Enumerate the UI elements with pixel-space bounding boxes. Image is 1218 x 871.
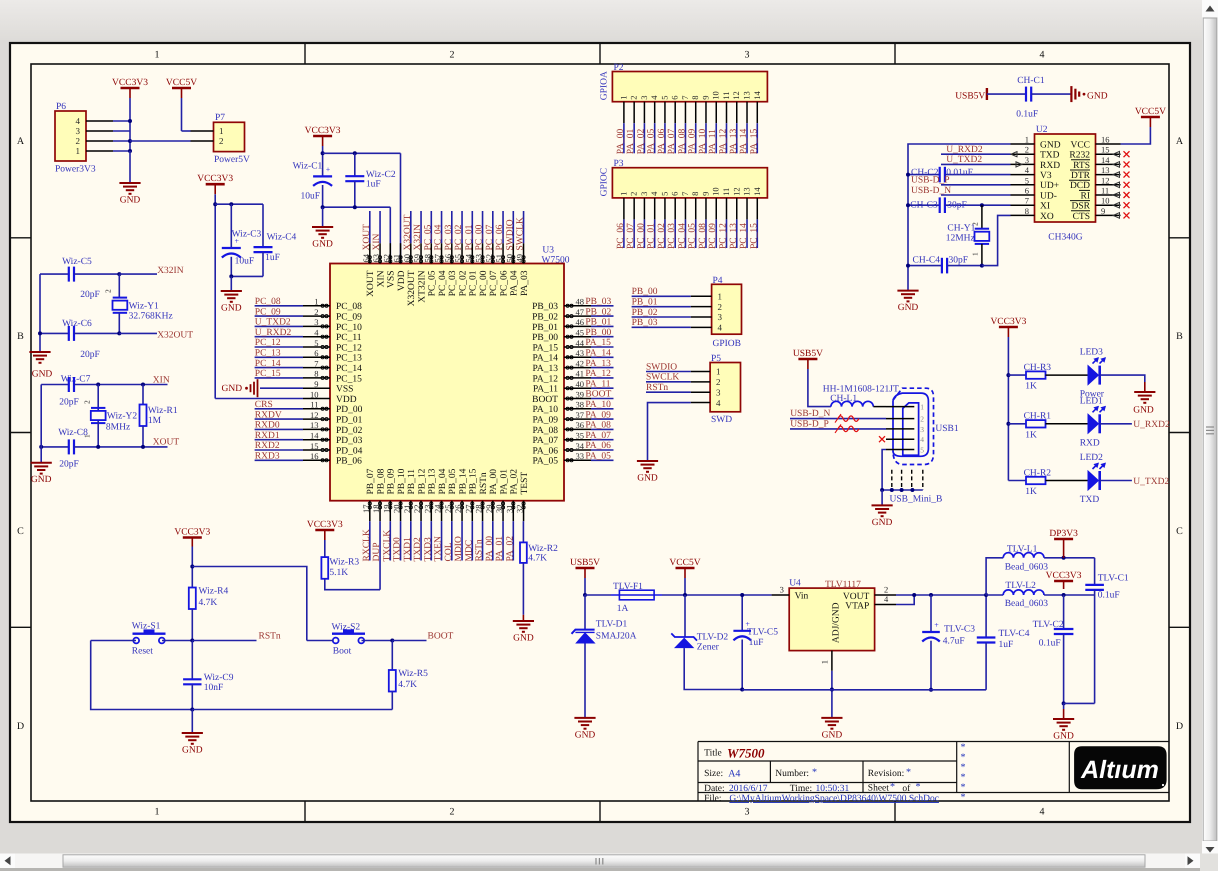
svg-text:GND: GND [1087, 91, 1108, 101]
svg-text:PB_03: PB_03 [632, 318, 658, 328]
svg-text:2: 2 [629, 192, 639, 196]
svg-text:15: 15 [1101, 145, 1110, 155]
svg-text:56: 56 [443, 254, 453, 263]
pin 58 of U3 (PC_05) [430, 243, 432, 263]
svg-text:TXD0: TXD0 [393, 537, 403, 562]
no-connect pin 15 [1113, 151, 1120, 157]
svg-text:PC_01: PC_01 [647, 223, 657, 249]
pin 4 of U3 (PC_11) [303, 336, 330, 338]
pin 8 of P2 (PA_09) [695, 102, 697, 124]
svg-text:21: 21 [402, 505, 412, 514]
pin 4 of P2 (PA_05) [654, 102, 656, 124]
svg-text:30pF: 30pF [949, 256, 969, 266]
svg-text:1: 1 [971, 252, 980, 256]
junction [390, 639, 394, 643]
pin 1 of P6 [86, 150, 113, 152]
wire [214, 194, 216, 398]
net label PC_04 [684, 219, 686, 248]
svg-text:5: 5 [314, 338, 318, 348]
svg-text:4: 4 [76, 116, 81, 126]
svg-text:1uF: 1uF [999, 640, 1014, 650]
svg-text:RSTn: RSTn [479, 472, 489, 494]
svg-text:GND: GND [637, 474, 658, 484]
net label PA_01 [502, 521, 504, 560]
svg-text:PA_15: PA_15 [585, 338, 611, 348]
svg-text:30pF: 30pF [947, 201, 967, 211]
ground rail at U3 pin 9 [260, 387, 303, 389]
pin 24 of U3 (PB_04) [441, 501, 443, 522]
resistor Wiz-R3 5.1K [324, 540, 326, 557]
svg-text:D: D [17, 721, 24, 732]
svg-text:PB_00: PB_00 [632, 287, 658, 297]
wire [808, 369, 831, 407]
wire [585, 594, 611, 596]
pin 1 of U3 (PC_08) [303, 305, 330, 307]
svg-text:20: 20 [392, 505, 402, 514]
pin 3 of U3 (PC_10) [303, 325, 330, 327]
pin 11 of U3 (PD_00) [303, 408, 330, 410]
svg-text:2: 2 [450, 807, 455, 818]
svg-text:Power3V3: Power3V3 [55, 165, 96, 175]
svg-text:3: 3 [76, 126, 81, 136]
svg-text:64: 64 [361, 253, 371, 262]
resistor CH-R3 1K [1008, 374, 1026, 376]
pin 7 of P3 (PC_04) [684, 198, 686, 220]
svg-text:1uF: 1uF [749, 638, 764, 648]
inductor TLV-L1 Bead_0603 [986, 558, 1003, 595]
net label PA_15 [591, 346, 614, 348]
svg-text:GND: GND [1053, 732, 1074, 742]
svg-text:PA_07: PA_07 [532, 436, 558, 446]
svg-text:VTAP: VTAP [845, 602, 869, 612]
svg-text:3: 3 [1025, 155, 1029, 165]
svg-text:HH-1M1608-121JT: HH-1M1608-121JT [823, 385, 899, 395]
svg-text:U4: U4 [789, 578, 801, 588]
wire C4/Y1 to pin8 XO [982, 215, 1011, 265]
wire [113, 140, 130, 142]
pin 5 of P2 (PA_06) [664, 102, 666, 124]
net label SWDIO [512, 211, 514, 243]
svg-text:PB_11: PB_11 [407, 469, 417, 495]
net label PC_03 [674, 219, 676, 248]
net label COL [451, 521, 453, 560]
svg-text:2: 2 [716, 377, 721, 387]
svg-text:36: 36 [576, 420, 585, 430]
pin 1 of P2 (PA_00) [623, 102, 625, 124]
net label PA_01 [633, 123, 635, 153]
wire pin16 to VCC5V [1121, 127, 1151, 144]
svg-text:RXD: RXD [1080, 438, 1100, 448]
svg-text:13: 13 [310, 420, 319, 430]
svg-text:5: 5 [920, 446, 924, 455]
svg-text:35: 35 [576, 431, 585, 441]
net label PA_09 [695, 123, 697, 153]
svg-text:PB_07: PB_07 [366, 468, 376, 494]
svg-text:BOOT: BOOT [532, 395, 558, 405]
junction [906, 203, 910, 207]
svg-text:PC_09: PC_09 [336, 313, 362, 323]
svg-text:20pF: 20pF [80, 350, 100, 360]
pin 1 of P5 [691, 371, 710, 373]
bottom rail [192, 709, 392, 711]
svg-text:Wiz-C8: Wiz-C8 [58, 428, 88, 438]
svg-text:W7500: W7500 [727, 746, 765, 761]
svg-text:12: 12 [731, 187, 741, 196]
net label DUP [379, 521, 381, 590]
svg-text:TLV-D2: TLV-D2 [697, 633, 729, 643]
svg-text:9: 9 [700, 95, 710, 99]
junction [213, 202, 217, 206]
net label PC_05 [430, 211, 432, 243]
right scrollbar [1202, 0, 1218, 858]
svg-text:PA_01: PA_01 [495, 536, 505, 562]
svg-text:C: C [1176, 526, 1183, 537]
svg-text:Wiz-C7: Wiz-C7 [61, 375, 91, 385]
resistor Wiz-R5 4.7K [391, 641, 393, 671]
shield tabs [891, 470, 893, 490]
svg-text:USB_Mini_B: USB_Mini_B [890, 495, 943, 505]
svg-text:BOOT: BOOT [428, 632, 454, 642]
svg-text:PA_00: PA_00 [616, 129, 626, 155]
pin 11 of U2 (RI) [1096, 194, 1121, 196]
pin 9 of U3 (VSS) [303, 387, 330, 389]
svg-text:RXD2: RXD2 [255, 441, 280, 451]
svg-text:PC_14: PC_14 [739, 223, 749, 249]
no-connect pin 11 [1113, 192, 1120, 198]
svg-text:1: 1 [718, 292, 723, 302]
svg-text:PA_02: PA_02 [636, 129, 646, 155]
svg-text:4.7K: 4.7K [199, 598, 218, 608]
svg-text:CH-R3: CH-R3 [1024, 363, 1052, 373]
no-connect pin 12 [1113, 182, 1120, 188]
net label PA_05 [591, 459, 614, 461]
svg-text:2: 2 [314, 307, 318, 317]
pin 2 of U2 (TXD) [1011, 153, 1035, 155]
svg-text:4.7K: 4.7K [398, 680, 417, 690]
pin 4 of P4 (PB_03) [691, 326, 712, 328]
pin 30 of U3 (PA_01) [502, 501, 504, 522]
svg-text:XIN: XIN [372, 233, 382, 250]
svg-text:VCC3V3: VCC3V3 [1046, 571, 1082, 581]
pin 54 of U3 (PC_01) [471, 243, 473, 263]
capacitor Wiz-C9 10nF [191, 641, 193, 680]
svg-text:5: 5 [659, 95, 669, 99]
junction [190, 708, 194, 712]
svg-text:PC_08: PC_08 [336, 302, 362, 312]
svg-text:SWCLK: SWCLK [646, 373, 679, 383]
svg-text:RXD3: RXD3 [255, 452, 280, 462]
wire [113, 120, 130, 122]
svg-text:PA_14: PA_14 [532, 354, 558, 364]
svg-text:10uF: 10uF [235, 257, 255, 267]
junction [38, 331, 42, 335]
net label MDIO [461, 521, 463, 560]
ground symbol (8M) [31, 463, 52, 474]
svg-text:4: 4 [718, 323, 723, 333]
svg-text:Reset: Reset [132, 646, 153, 656]
svg-text:PC_00: PC_00 [475, 224, 485, 250]
svg-text:Wiz-R2: Wiz-R2 [528, 544, 558, 554]
svg-text:9: 9 [1101, 206, 1105, 216]
svg-text:GPIOC: GPIOC [600, 168, 610, 197]
svg-text:1K: 1K [1025, 382, 1037, 392]
junction [906, 173, 910, 177]
svg-text:11: 11 [721, 92, 731, 100]
net label PA_14 [591, 356, 614, 358]
wire [113, 130, 130, 132]
svg-text:11: 11 [721, 188, 731, 196]
net label PA_06 [664, 123, 666, 153]
net label PC_00 [482, 211, 484, 243]
svg-text:PA_05: PA_05 [532, 457, 558, 467]
svg-text:CTS: CTS [1073, 212, 1090, 222]
svg-text:2: 2 [884, 585, 888, 595]
svg-text:PA_14: PA_14 [585, 349, 611, 359]
net label RSTn [482, 521, 484, 560]
svg-text:1: 1 [155, 50, 160, 61]
svg-text:A4: A4 [728, 768, 740, 779]
net label PC_01 [471, 211, 473, 243]
svg-text:4: 4 [1040, 807, 1045, 818]
svg-text:5: 5 [659, 192, 669, 196]
pin 42 of U3 (PA_13) [564, 367, 591, 369]
svg-text:ADJ/GND: ADJ/GND [832, 602, 842, 643]
svg-text:A: A [17, 136, 25, 147]
svg-text:GND: GND [32, 370, 53, 380]
net label PA_07 [674, 123, 676, 153]
svg-text:0.1uF: 0.1uF [1039, 639, 1061, 649]
svg-text:GND: GND [221, 304, 242, 314]
svg-text:R232: R232 [1069, 151, 1090, 161]
svg-text:3: 3 [780, 585, 784, 595]
svg-text:2: 2 [104, 289, 113, 293]
net label USB-D_N [790, 418, 886, 420]
svg-text:Number:: Number: [775, 769, 809, 779]
inductor TLV-L2 Bead_0603 [986, 594, 1003, 596]
net label PC_02 [664, 219, 666, 248]
wire [307, 640, 333, 642]
svg-text:PB_03: PB_03 [585, 297, 611, 307]
svg-text:G:\MyAltiumWorkingSpace\DP8364: G:\MyAltiumWorkingSpace\DP83640\W7500.Sc… [729, 794, 939, 804]
svg-text:PC_07: PC_07 [489, 270, 499, 296]
pin 21 of U3 (PB_11) [410, 501, 412, 522]
net label X32OUT [119, 332, 157, 334]
net label PC_08 [705, 219, 707, 248]
svg-text:3: 3 [716, 387, 721, 397]
junction [1062, 556, 1066, 560]
net label PC_12 [255, 346, 303, 348]
net label PB_03 [591, 305, 614, 307]
svg-text:VCC3V3: VCC3V3 [112, 78, 148, 88]
svg-text:2: 2 [76, 136, 81, 146]
svg-text:PA_09: PA_09 [585, 410, 611, 420]
svg-text:XOUT: XOUT [362, 224, 372, 251]
svg-text:PD_01: PD_01 [336, 416, 363, 426]
svg-text:PC_13: PC_13 [336, 354, 362, 364]
svg-text:8: 8 [314, 369, 318, 379]
wire LED3 to GND [1100, 375, 1145, 382]
svg-text:PB_09: PB_09 [387, 468, 397, 494]
pin 4 of U4 [875, 604, 896, 606]
ground symbol (TLV-D1) [574, 718, 595, 729]
junction [96, 383, 100, 387]
svg-text:3: 3 [920, 425, 924, 434]
pin 12 of U3 (PD_01) [303, 418, 330, 420]
svg-text:3: 3 [639, 95, 649, 99]
svg-text:C: C [17, 526, 24, 537]
pin 8 of P3 (PC_05) [695, 198, 697, 220]
svg-text:GND: GND [312, 240, 333, 250]
capacitor TLV-C5 1uF [741, 595, 743, 631]
pin 7 of U2 (XI) [1011, 204, 1035, 206]
net label SWCLK [523, 211, 525, 243]
junction [929, 688, 933, 692]
svg-text:GND: GND [872, 518, 893, 528]
junction [96, 445, 100, 449]
svg-text:+: + [745, 619, 750, 628]
svg-text:PA_14: PA_14 [739, 129, 749, 155]
svg-text:Boot: Boot [333, 646, 352, 656]
svg-text:PC_04: PC_04 [434, 224, 444, 250]
svg-text:11: 11 [310, 400, 318, 410]
svg-text:1: 1 [76, 146, 81, 156]
junction [984, 593, 988, 597]
svg-text:U_TXD2: U_TXD2 [1133, 477, 1169, 487]
pin 10 of U3 (VDD) [303, 398, 330, 400]
svg-text:DP3V3: DP3V3 [1049, 529, 1078, 539]
svg-text:61: 61 [392, 254, 402, 263]
junction [229, 274, 233, 278]
svg-text:PC_00: PC_00 [479, 270, 489, 296]
net label PC_06 [623, 219, 625, 248]
svg-text:PA_06: PA_06 [585, 441, 611, 451]
pin 2 of USB1 [886, 418, 914, 420]
svg-text:PB_00: PB_00 [585, 328, 611, 338]
svg-text:10: 10 [310, 389, 319, 399]
net label PA_02 [512, 521, 514, 560]
pin 34 of U3 (PA_06) [564, 449, 591, 451]
svg-text:XIN: XIN [376, 270, 386, 287]
pin 11 of P3 (PC_12) [726, 198, 728, 220]
svg-text:PB_01: PB_01 [632, 297, 658, 307]
svg-text:13: 13 [1101, 165, 1110, 175]
svg-text:TLV-D1: TLV-D1 [596, 620, 628, 630]
svg-text:29: 29 [484, 505, 494, 514]
net label RXD0 [255, 428, 303, 430]
net label U_RXD2 (LED1) [1100, 423, 1132, 425]
wire P6 to P7 [130, 140, 191, 142]
svg-text:2: 2 [920, 415, 924, 424]
svg-text:A: A [1176, 136, 1184, 147]
net label RXDV [255, 418, 303, 420]
crystal Wiz-Y2 8MHz [97, 385, 99, 411]
net label MDC [471, 521, 473, 560]
pin 1 of U2 (GND) [1011, 143, 1035, 145]
pin 10 of P2 (PA_11) [715, 102, 717, 124]
pin 6 of P2 (PA_07) [674, 102, 676, 124]
pin 62 of U3 (VSS) [389, 243, 391, 263]
pin 15 of U3 (PD_04) [303, 449, 330, 451]
svg-text:Bead_0603: Bead_0603 [1005, 563, 1049, 573]
svg-text:3: 3 [718, 312, 723, 322]
svg-text:2016/6/17: 2016/6/17 [729, 784, 768, 794]
svg-text:CH-C1: CH-C1 [1017, 76, 1045, 86]
svg-text:USB-D_N: USB-D_N [790, 409, 830, 419]
svg-text:25: 25 [443, 505, 453, 514]
wire [191, 547, 193, 588]
net label X32IN [119, 273, 157, 275]
svg-text:RXDV: RXDV [255, 410, 282, 420]
svg-text:2: 2 [629, 95, 639, 99]
wire [215, 203, 263, 205]
Altium logo [1074, 746, 1167, 789]
svg-text:XO: XO [1040, 212, 1054, 222]
svg-text:PA_04: PA_04 [510, 270, 520, 296]
svg-text:Date:: Date: [704, 784, 725, 794]
svg-text:7: 7 [680, 192, 690, 196]
svg-text:49: 49 [515, 254, 525, 263]
differential pair marks [838, 416, 859, 422]
net label RSTn [192, 640, 256, 642]
svg-text:Wiz-R4: Wiz-R4 [199, 587, 229, 597]
svg-text:VDD: VDD [397, 270, 407, 291]
no-connect pin 13 [1113, 172, 1120, 178]
svg-text:GND: GND [222, 384, 243, 394]
svg-text:PD_04: PD_04 [336, 446, 363, 456]
junction [1006, 373, 1010, 377]
junction [1062, 593, 1066, 597]
svg-text:14: 14 [752, 187, 762, 196]
junction [128, 119, 132, 123]
pin 52 of U3 (PC_07) [492, 243, 494, 263]
svg-text:D: D [1176, 721, 1183, 732]
svg-text:TXEN: TXEN [434, 536, 444, 561]
pin 35 of U3 (PA_07) [564, 439, 591, 441]
pin 51 of U3 (PC_06) [502, 243, 504, 263]
net label U_RXD2 (U2.TXD) [941, 153, 1011, 155]
pin 2 of P5 [691, 381, 710, 383]
junction [912, 593, 916, 597]
ground symbol (Wiz-R2) [513, 621, 534, 632]
svg-text:USB-D_N: USB-D_N [911, 186, 951, 196]
svg-text:3: 3 [745, 807, 750, 818]
svg-text:Wiz-C9: Wiz-C9 [204, 673, 234, 683]
diode TLV-D2 Zener [684, 595, 686, 637]
svg-text:30: 30 [494, 505, 504, 514]
pin 6 of P3 (PC_03) [674, 198, 676, 220]
svg-text:PC_02: PC_02 [454, 224, 464, 250]
resistor CH-R2 1K [1008, 480, 1026, 482]
svg-text:2: 2 [1025, 145, 1029, 155]
svg-text:PC_06: PC_06 [499, 270, 509, 296]
svg-text:Wiz-C2: Wiz-C2 [366, 170, 396, 180]
svg-text:X32IN: X32IN [413, 224, 423, 251]
pin 31 of U3 (PA_02) [512, 501, 514, 522]
svg-text:GND: GND [1133, 406, 1154, 416]
junction [117, 272, 121, 276]
no-connect pin4 [879, 436, 885, 442]
junction [740, 593, 744, 597]
pin 7 of P2 (PA_08) [684, 102, 686, 124]
svg-text:*: * [916, 782, 921, 793]
svg-text:37: 37 [576, 410, 585, 420]
svg-text:16: 16 [310, 451, 319, 461]
pin 6 of U2 (UD-) [1011, 194, 1035, 196]
pin 44 of U3 (PA_15) [564, 346, 591, 348]
svg-text:28: 28 [474, 505, 484, 514]
pin 23 of U3 (PB_13) [430, 501, 432, 522]
svg-text:GND: GND [1040, 140, 1061, 150]
